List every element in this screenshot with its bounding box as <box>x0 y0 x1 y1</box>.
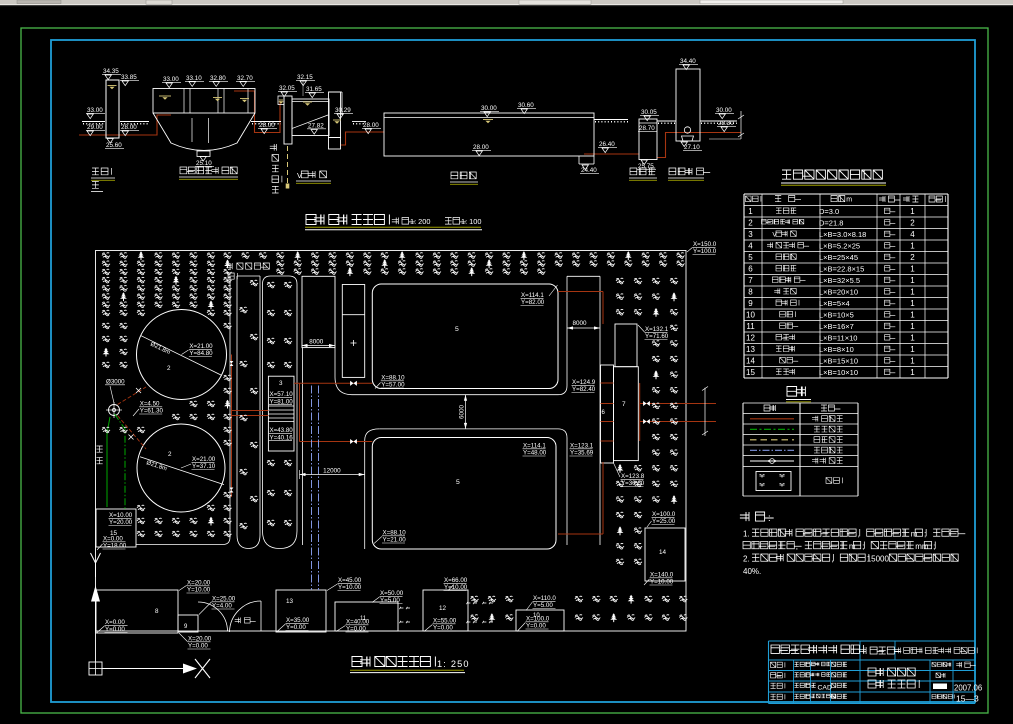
svg-text:31.65: 31.65 <box>306 86 322 93</box>
svg-text:X=0.00: X=0.00 <box>105 619 125 626</box>
svg-text:1: 1 <box>910 276 915 285</box>
svg-text:Y=0.00: Y=0.00 <box>188 643 208 650</box>
svg-text:2: 2 <box>910 253 915 262</box>
svg-text:32.15: 32.15 <box>297 74 313 81</box>
svg-text:40%.: 40%. <box>743 567 761 576</box>
svg-text:Y=10.00: Y=10.00 <box>187 587 211 594</box>
svg-text:Y=0.00: Y=0.00 <box>526 623 546 630</box>
svg-text:30.05: 30.05 <box>641 109 657 116</box>
svg-text:33.00: 33.00 <box>163 76 179 83</box>
svg-text:4: 4 <box>748 242 753 251</box>
svg-text:Ø3000: Ø3000 <box>106 379 125 386</box>
svg-text:L×B=25×45: L×B=25×45 <box>819 253 858 262</box>
svg-text:28.00: 28.00 <box>363 122 379 129</box>
svg-text:L×B=5×4: L×B=5×4 <box>819 299 850 308</box>
svg-text:12: 12 <box>746 334 755 343</box>
svg-text:Y=0.00: Y=0.00 <box>433 625 453 632</box>
svg-text:33.00: 33.00 <box>87 107 103 114</box>
svg-text:m: m <box>911 529 918 538</box>
svg-text:2007.06: 2007.06 <box>954 684 982 693</box>
svg-text:X=35.00: X=35.00 <box>286 617 310 624</box>
svg-text:X=43.80: X=43.80 <box>270 427 294 434</box>
svg-text:X=100.0: X=100.0 <box>652 511 676 518</box>
svg-text:CAD: CAD <box>818 684 832 691</box>
svg-text:L×B=3.0×8.18: L×B=3.0×8.18 <box>819 230 866 239</box>
svg-text:L×B=10×5: L×B=10×5 <box>819 311 854 320</box>
svg-text:X=110.0: X=110.0 <box>533 595 556 602</box>
svg-text:X=50.00: X=50.00 <box>380 590 404 597</box>
svg-text:X=132.1: X=132.1 <box>645 326 669 333</box>
svg-text:8000: 8000 <box>309 338 324 345</box>
svg-text:X=55.00: X=55.00 <box>433 618 457 625</box>
svg-text:Y=82.00: Y=82.00 <box>521 299 545 306</box>
svg-text:2: 2 <box>910 219 915 228</box>
svg-text:1: 1 <box>910 265 915 274</box>
svg-text:X=25.00: X=25.00 <box>212 596 236 603</box>
svg-text:6: 6 <box>748 265 753 274</box>
svg-text:1: 1 <box>910 334 915 343</box>
svg-text:2.: 2. <box>743 554 750 563</box>
svg-text:1.: 1. <box>743 529 750 538</box>
svg-text:X=20.00: X=20.00 <box>188 636 212 643</box>
svg-text:15—3: 15—3 <box>956 694 979 704</box>
svg-text:5: 5 <box>748 253 753 262</box>
svg-text:13: 13 <box>286 598 294 605</box>
svg-text:Y=61.30: Y=61.30 <box>140 408 164 415</box>
svg-text:X=100.0: X=100.0 <box>526 616 550 623</box>
svg-text:34.40: 34.40 <box>680 58 696 65</box>
svg-text:8: 8 <box>748 288 753 297</box>
svg-text:Y=71.60: Y=71.60 <box>645 333 669 340</box>
svg-text:X=21.00: X=21.00 <box>192 456 216 463</box>
svg-text:Y=20.00: Y=20.00 <box>109 519 133 526</box>
svg-text:7: 7 <box>622 401 626 408</box>
svg-text:Y=100.0: Y=100.0 <box>693 248 717 255</box>
svg-text:15: 15 <box>746 368 755 377</box>
svg-text:28.00: 28.00 <box>259 122 275 129</box>
svg-text:Y=5.00: Y=5.00 <box>380 597 400 604</box>
svg-text:2: 2 <box>167 365 171 372</box>
svg-text:Y=82.40: Y=82.40 <box>572 386 596 393</box>
svg-text:1: 1 <box>910 345 915 354</box>
svg-text:1: 1 <box>910 242 915 251</box>
svg-text:X=4.50: X=4.50 <box>140 401 160 408</box>
svg-text:L×B=20×10: L×B=20×10 <box>819 288 858 297</box>
svg-text:mm: mm <box>915 542 929 551</box>
svg-text:1: 1 <box>910 357 915 366</box>
svg-text:1: 250: 1: 250 <box>437 659 470 669</box>
svg-text:8: 8 <box>155 608 159 615</box>
svg-text:L×B=15×10: L×B=15×10 <box>819 357 858 366</box>
svg-text:1: 1 <box>910 299 915 308</box>
svg-text:33.85: 33.85 <box>121 74 137 81</box>
svg-text:Y=81.00: Y=81.00 <box>270 398 294 405</box>
svg-text:Y=35.69: Y=35.69 <box>570 450 594 457</box>
svg-text:1: 1 <box>910 322 915 331</box>
svg-text:X=123.1: X=123.1 <box>570 443 594 450</box>
svg-text:3: 3 <box>748 230 753 239</box>
svg-text:Y=5.00: Y=5.00 <box>533 602 553 609</box>
svg-text:12000: 12000 <box>323 467 341 474</box>
svg-text:33.10: 33.10 <box>186 75 202 82</box>
svg-text:9: 9 <box>748 299 753 308</box>
svg-text:X=114.1: X=114.1 <box>521 292 544 299</box>
svg-text:2: 2 <box>168 451 172 458</box>
svg-text:X=40.00: X=40.00 <box>346 619 370 626</box>
svg-text:32.05: 32.05 <box>279 85 295 92</box>
svg-text:m: m <box>846 197 852 204</box>
svg-text:X=20.00: X=20.00 <box>187 580 211 587</box>
svg-text:L×B=5.2×25: L×B=5.2×25 <box>819 242 860 251</box>
svg-text:8000: 8000 <box>573 320 588 327</box>
svg-text:Y=18.00: Y=18.00 <box>103 543 127 550</box>
svg-text:X=140.0: X=140.0 <box>650 572 674 579</box>
svg-text:X=150.0: X=150.0 <box>693 241 717 248</box>
svg-text:X=114.1: X=114.1 <box>523 443 546 450</box>
svg-text:Y=10.00: Y=10.00 <box>444 584 468 591</box>
svg-text:15000: 15000 <box>867 554 890 563</box>
svg-text:14: 14 <box>746 357 755 366</box>
svg-text:2: 2 <box>748 219 753 228</box>
svg-text:14: 14 <box>659 549 667 556</box>
svg-text:X=123.8: X=123.8 <box>621 473 645 480</box>
svg-text:11: 11 <box>746 322 755 331</box>
svg-text:12: 12 <box>439 605 447 612</box>
svg-text:L×B=8×10: L×B=8×10 <box>819 345 854 354</box>
svg-text:1: 1 <box>910 368 915 377</box>
svg-text:1: 1 <box>748 207 753 216</box>
svg-text:X=66.00: X=66.00 <box>444 577 468 584</box>
svg-text:m: m <box>849 542 856 551</box>
svg-text:X=88.10: X=88.10 <box>381 375 405 382</box>
svg-text:Y=40.16: Y=40.16 <box>270 434 294 441</box>
svg-text:Y=0.00: Y=0.00 <box>346 626 366 633</box>
svg-text:L×B=32×5.5: L×B=32×5.5 <box>819 276 860 285</box>
svg-text:D=3.0: D=3.0 <box>819 207 839 216</box>
svg-text:Y=25.00: Y=25.00 <box>652 518 676 525</box>
svg-text:X=45.00: X=45.00 <box>338 577 362 584</box>
svg-text:Y=21.00: Y=21.00 <box>383 537 407 544</box>
svg-text:10: 10 <box>746 311 755 320</box>
svg-text::: : <box>768 513 771 524</box>
svg-text:3: 3 <box>279 380 283 387</box>
svg-text:34.35: 34.35 <box>103 68 119 75</box>
svg-text:Y=84.80: Y=84.80 <box>189 350 213 357</box>
svg-text:Y=37.10: Y=37.10 <box>192 463 216 470</box>
svg-text:Y=48.00: Y=48.00 <box>523 450 547 457</box>
svg-text:X=0.00: X=0.00 <box>103 536 123 543</box>
svg-text:L×B=22.8×15: L×B=22.8×15 <box>819 265 864 274</box>
svg-text:Y=0.00: Y=0.00 <box>105 626 125 633</box>
svg-text:Y=10.00: Y=10.00 <box>338 584 362 591</box>
svg-text:6000: 6000 <box>458 404 465 419</box>
svg-text:30.00: 30.00 <box>716 107 732 114</box>
svg-text:4: 4 <box>910 230 915 239</box>
svg-text:X=10.00: X=10.00 <box>109 512 133 519</box>
svg-text:30.00: 30.00 <box>481 105 497 112</box>
svg-text:L×B=16×7: L×B=16×7 <box>819 322 854 331</box>
svg-text:7: 7 <box>748 276 753 285</box>
svg-text:X=88.10: X=88.10 <box>383 530 407 537</box>
svg-text:32.70: 32.70 <box>237 75 253 82</box>
svg-text:L×B=10×10: L×B=10×10 <box>819 368 858 377</box>
svg-text:L×B=11×10: L×B=11×10 <box>819 334 857 343</box>
svg-text:X=21.00: X=21.00 <box>189 343 213 350</box>
svg-text:Y=57.00: Y=57.00 <box>381 382 405 389</box>
svg-text:30.29: 30.29 <box>335 107 351 114</box>
svg-text:X=124.9: X=124.9 <box>572 379 596 386</box>
svg-text:30.60: 30.60 <box>518 102 534 109</box>
svg-text:D=21.8: D=21.8 <box>819 219 843 228</box>
svg-text:5: 5 <box>455 326 459 333</box>
svg-text:1: 1 <box>910 288 915 297</box>
svg-text:5: 5 <box>456 479 460 486</box>
svg-text:Y=4.00: Y=4.00 <box>212 603 232 610</box>
svg-text:32.80: 32.80 <box>210 75 226 82</box>
svg-text:28.30: 28.30 <box>718 120 734 127</box>
svg-text:Y=10.00: Y=10.00 <box>650 579 674 586</box>
svg-text:1: 1 <box>910 311 915 320</box>
svg-text:X=57.10: X=57.10 <box>270 391 294 398</box>
svg-text:Y=0.00: Y=0.00 <box>286 624 306 631</box>
svg-text:13: 13 <box>746 345 755 354</box>
svg-text:1: 1 <box>910 207 915 216</box>
